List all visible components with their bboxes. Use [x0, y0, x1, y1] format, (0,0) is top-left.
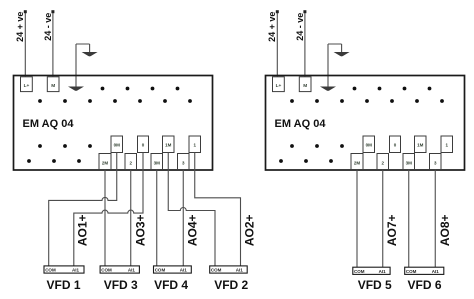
svg-text:AI1: AI1 — [72, 268, 80, 273]
svg-text:AI1: AI1 — [236, 268, 244, 273]
svg-text:AO7+: AO7+ — [385, 214, 399, 246]
svg-text:VFD 4: VFD 4 — [154, 278, 188, 292]
svg-text:COM: COM — [406, 269, 417, 274]
svg-text:AO4+: AO4+ — [186, 214, 200, 246]
svg-text:VFD 1: VFD 1 — [46, 278, 80, 292]
svg-text:AO8+: AO8+ — [438, 214, 452, 246]
svg-text:AI1: AI1 — [432, 269, 440, 274]
svg-text:AI1: AI1 — [128, 268, 136, 273]
svg-text:AI1: AI1 — [180, 268, 188, 273]
svg-text:VFD 2: VFD 2 — [214, 278, 248, 292]
svg-text:COM: COM — [155, 268, 166, 273]
svg-text:COM: COM — [354, 269, 365, 274]
svg-text:AO1+: AO1+ — [76, 214, 90, 246]
svg-text:AO2+: AO2+ — [242, 214, 256, 246]
svg-text:COM: COM — [45, 268, 56, 273]
svg-text:COM: COM — [101, 268, 112, 273]
svg-text:COM: COM — [211, 268, 222, 273]
svg-text:VFD 5: VFD 5 — [358, 278, 392, 292]
svg-text:VFD 3: VFD 3 — [104, 278, 138, 292]
svg-text:AO3+: AO3+ — [133, 214, 147, 246]
svg-text:AI1: AI1 — [379, 269, 387, 274]
svg-text:VFD 6: VFD 6 — [407, 278, 441, 292]
